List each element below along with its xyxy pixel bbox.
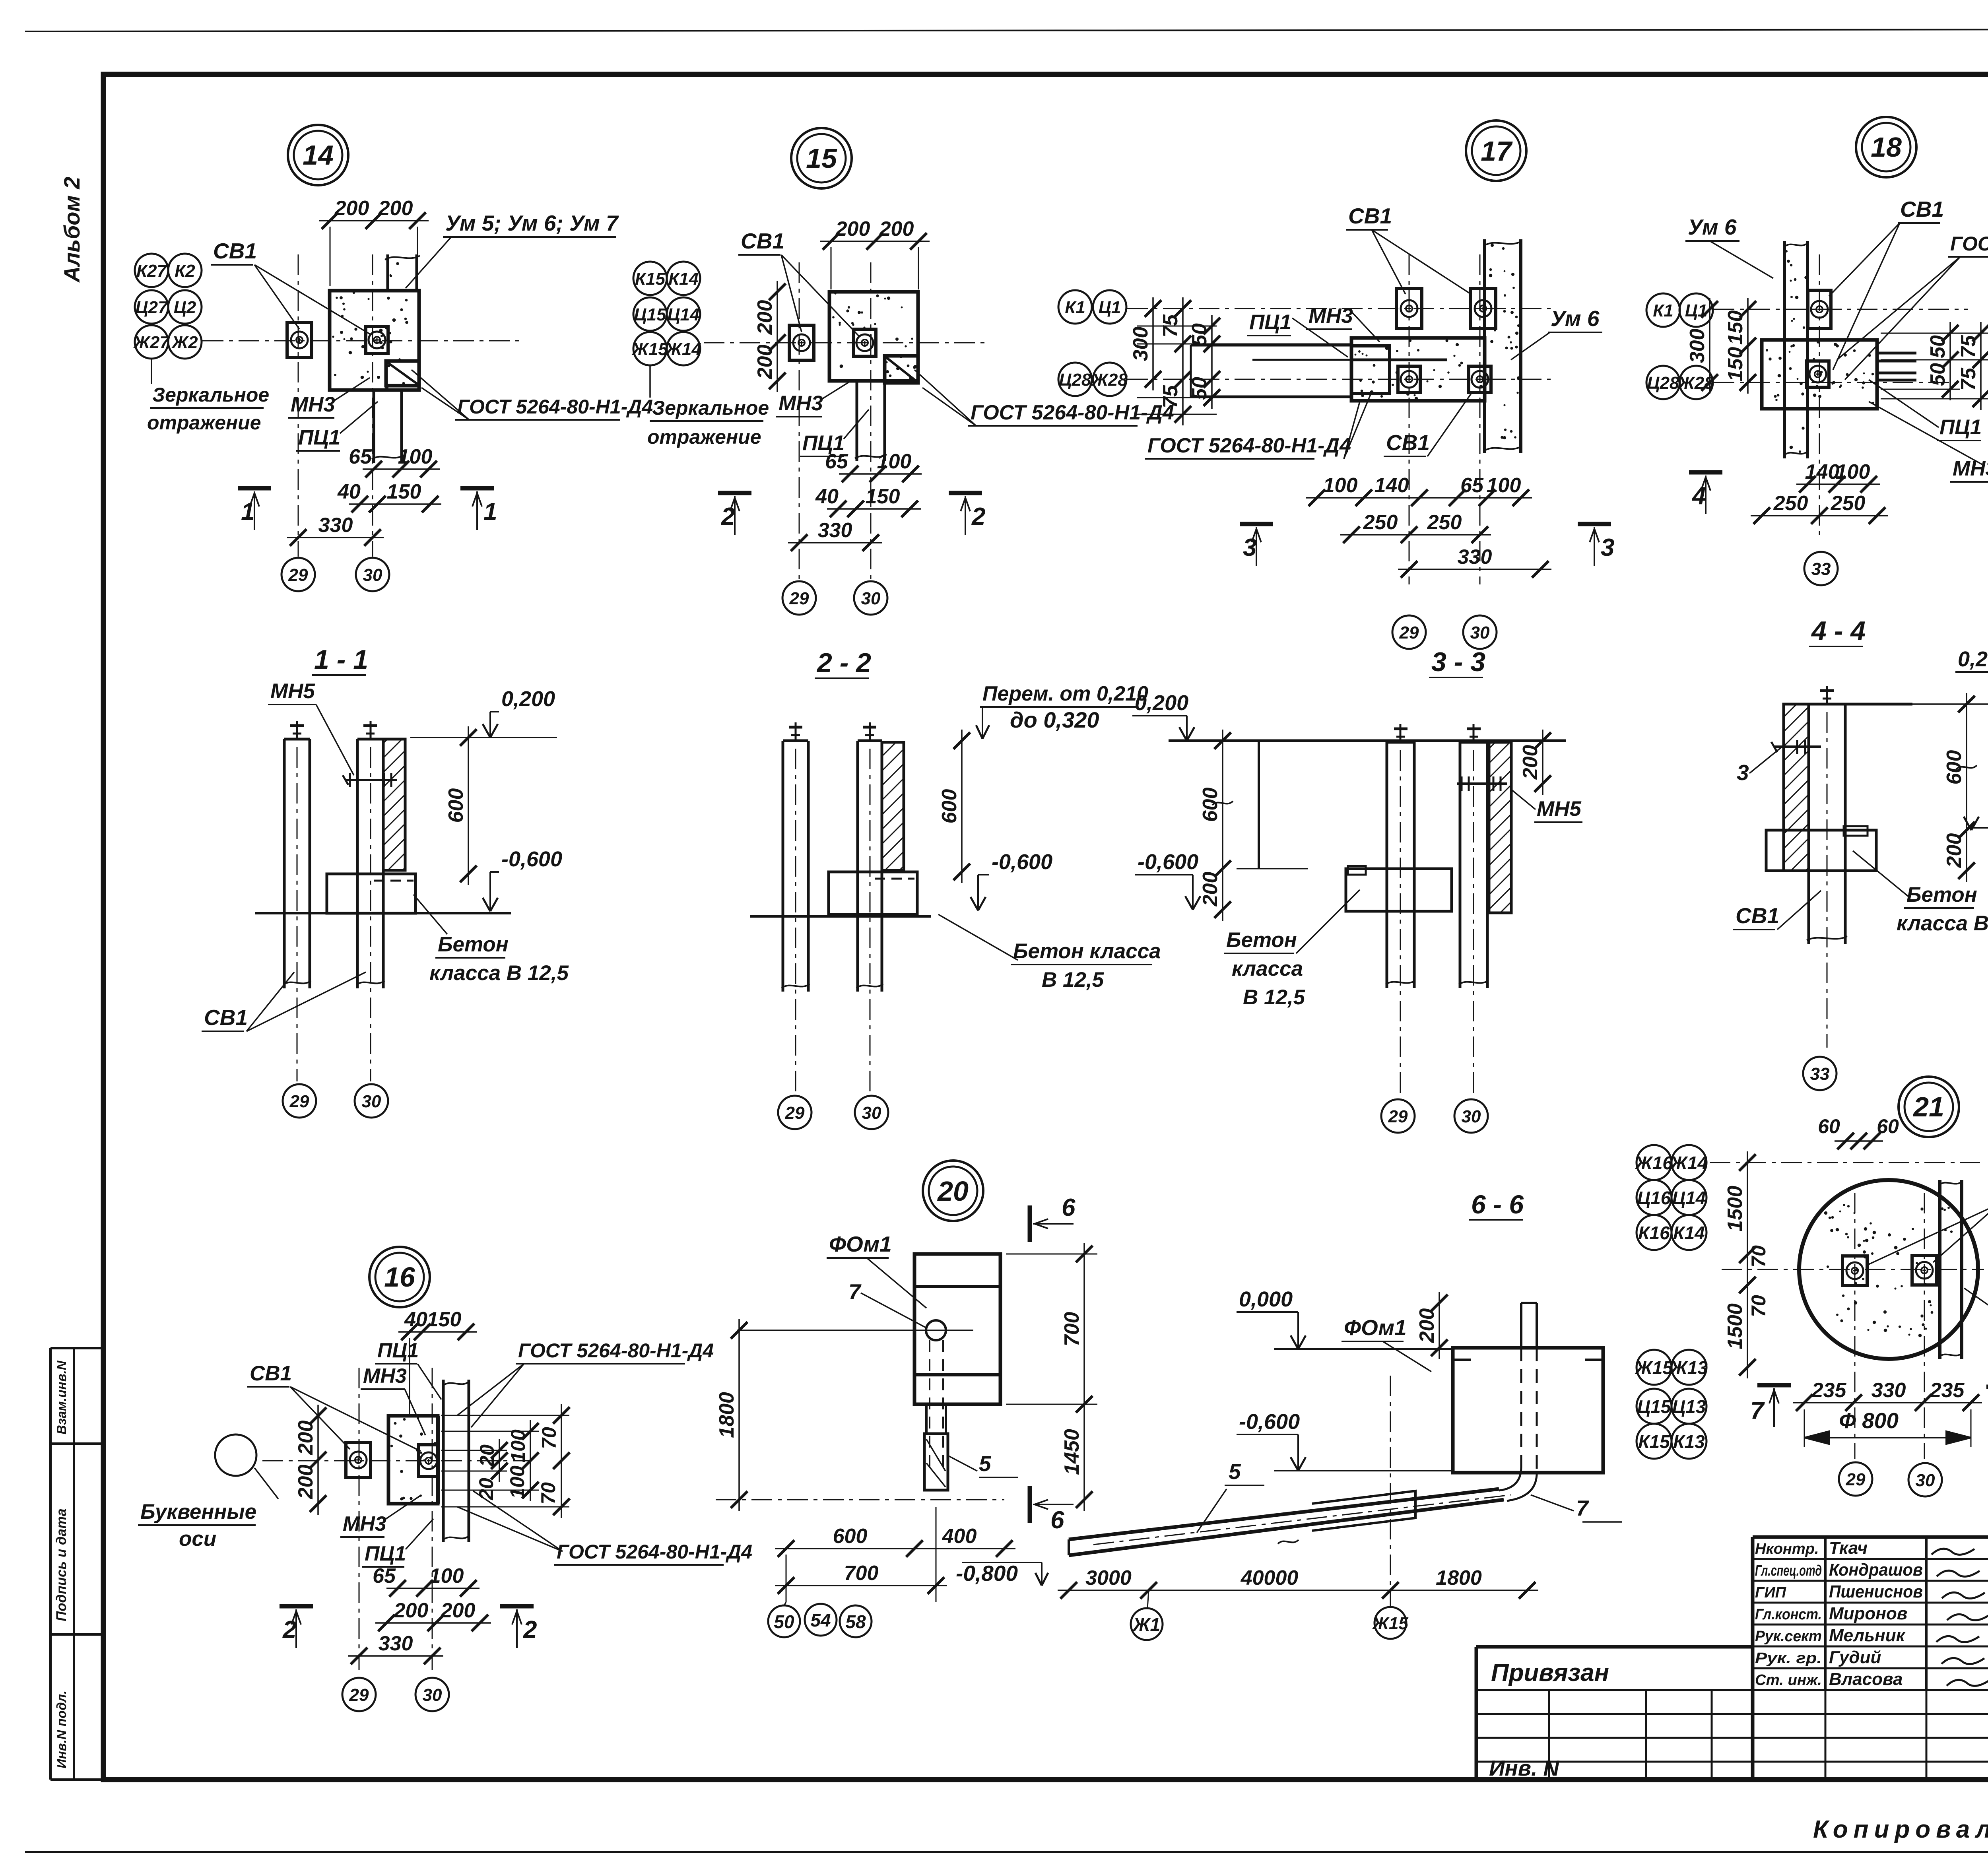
sheet edge bottom — [25, 1851, 1988, 1853]
svg-text:Гл.спец.отд: Гл.спец.отд — [1755, 1562, 1822, 1579]
svg-text:-0,600: -0,600 — [992, 850, 1052, 874]
node 16 right fan dims — [499, 1439, 500, 1482]
svg-text:МН3: МН3 — [779, 392, 823, 415]
section 4-4 dim 600 — [1966, 693, 1967, 841]
svg-text:Бетон: Бетон — [1226, 928, 1297, 952]
svg-text:Ц27: Ц27 — [135, 298, 169, 317]
section 1-1 foundation — [327, 874, 415, 913]
svg-text:100: 100 — [429, 1564, 464, 1588]
node 20 dim 600 400 — [775, 1548, 1015, 1549]
svg-text:4: 4 — [1691, 482, 1706, 510]
svg-text:ПЦ1: ПЦ1 — [1249, 311, 1291, 334]
svg-text:В 12,5: В 12,5 — [1042, 968, 1105, 992]
svg-text:1450: 1450 — [1060, 1429, 1083, 1475]
svg-text:МН5: МН5 — [270, 679, 315, 703]
svg-text:Бетон: Бетон — [438, 933, 509, 956]
svg-text:отражение: отражение — [147, 411, 261, 434]
node 16 left bolt — [346, 1442, 371, 1477]
svg-text:70: 70 — [1747, 1245, 1770, 1267]
svg-text:30: 30 — [362, 1092, 381, 1111]
svg-text:К1: К1 — [1653, 301, 1673, 320]
svg-text:Ум 5; Ум 6; Ум 7: Ум 5; Ум 6; Ум 7 — [445, 211, 619, 235]
svg-text:Ж16: Ж16 — [1635, 1153, 1673, 1173]
section 4-4 axis 33 — [1803, 1057, 1837, 1090]
svg-text:Привязан: Привязан — [1491, 1659, 1609, 1687]
svg-text:Инв.N подл.: Инв.N подл. — [54, 1691, 69, 1768]
svg-text:140: 140 — [1375, 474, 1409, 497]
svg-text:Зеркальное: Зеркальное — [152, 384, 269, 406]
node 21 bolt left — [1842, 1256, 1867, 1285]
svg-text:Зеркальное: Зеркальное — [652, 397, 769, 419]
svg-text:60: 60 — [1818, 1115, 1840, 1137]
svg-text:65: 65 — [373, 1564, 396, 1588]
svg-text:330: 330 — [379, 1632, 413, 1655]
svg-text:ПЦ1: ПЦ1 — [1939, 415, 1982, 439]
node 17 axis circles left pair 1 — [1058, 290, 1092, 324]
svg-text:ГОСТ 5264-80-Н1-Д4: ГОСТ 5264-80-Н1-Д4 — [518, 1339, 714, 1362]
svg-text:Буквенные: Буквенные — [140, 1500, 256, 1524]
node 20 axis circles 50 54 58 — [768, 1605, 800, 1637]
svg-text:Ц28: Ц28 — [1647, 373, 1679, 393]
node 14 axis 30 — [356, 558, 389, 591]
svg-text:Ж14: Ж14 — [665, 340, 701, 359]
svg-text:16: 16 — [384, 1262, 415, 1293]
svg-text:250: 250 — [1363, 511, 1398, 534]
svg-text:оси: оси — [179, 1527, 216, 1551]
svg-text:ПЦ1: ПЦ1 — [365, 1542, 406, 1565]
svg-text:МН5: МН5 — [1537, 797, 1582, 821]
svg-text:0,200: 0,200 — [1958, 647, 1988, 671]
node 20 section mark 6 top — [1028, 1205, 1032, 1242]
svg-text:Взам.инв.N: Взам.инв.N — [54, 1360, 69, 1434]
node 21 big circle — [1799, 1180, 1978, 1359]
svg-text:2: 2 — [721, 503, 735, 530]
node 16 generic axis circle — [215, 1434, 256, 1476]
svg-text:29: 29 — [1399, 623, 1419, 642]
node 20 pile element 5 — [924, 1434, 948, 1490]
section 6-6 axis Zh15 — [1375, 1607, 1406, 1639]
svg-text:330: 330 — [1872, 1379, 1906, 1402]
svg-text:0,200: 0,200 — [501, 687, 555, 711]
svg-text:-0,600: -0,600 — [501, 847, 562, 871]
svg-text:СВ1: СВ1 — [1348, 204, 1392, 228]
svg-text:Ц1: Ц1 — [1685, 301, 1708, 320]
section 3-3 wall hatched — [1489, 742, 1511, 913]
svg-text:330: 330 — [318, 514, 353, 537]
svg-text:75: 75 — [1957, 367, 1980, 391]
svg-text:200: 200 — [753, 300, 777, 335]
section 3-3 right pile — [1459, 742, 1462, 988]
svg-text:200: 200 — [753, 345, 777, 380]
svg-text:МН3: МН3 — [291, 393, 335, 416]
node 15 dim 200 200 — [820, 241, 930, 242]
svg-text:50: 50 — [774, 1611, 794, 1632]
svg-text:Ц16: Ц16 — [1637, 1188, 1671, 1208]
section 3-3 axis 30 — [1454, 1099, 1488, 1133]
svg-text:65: 65 — [825, 450, 848, 473]
svg-text:40000: 40000 — [1241, 1566, 1299, 1590]
node 20 dim 1800 — [738, 1319, 740, 1511]
section 2-2 dim 600 — [961, 730, 963, 883]
svg-text:ПЦ1: ПЦ1 — [298, 426, 340, 449]
svg-text:30: 30 — [1916, 1471, 1935, 1490]
node 21 dim 235 330 235 — [1793, 1402, 1982, 1403]
top band line — [103, 74, 1988, 74]
svg-text:330: 330 — [1458, 545, 1492, 569]
svg-text:СВ1: СВ1 — [1736, 903, 1779, 928]
svg-text:Ж13: Ж13 — [1670, 1357, 1708, 1378]
node 16 dim 65 100 — [386, 1588, 480, 1589]
section 1-1 axis 29 — [283, 1084, 316, 1118]
svg-text:0,200: 0,200 — [1135, 691, 1188, 715]
svg-text:Ц13: Ц13 — [1672, 1396, 1706, 1417]
node 14 mirror label — [151, 359, 152, 384]
section 3-3 level 0.200 — [1179, 727, 1187, 741]
svg-text:Ум 6: Ум 6 — [1551, 306, 1600, 331]
svg-text:Гл.конст.: Гл.конст. — [1755, 1606, 1822, 1623]
section 6-6 block — [1453, 1348, 1603, 1473]
svg-text:В 12,5: В 12,5 — [1243, 986, 1306, 1009]
svg-text:-0,800: -0,800 — [956, 1561, 1018, 1586]
node 16 marker — [369, 1247, 430, 1307]
svg-text:Нконтр.: Нконтр. — [1755, 1541, 1819, 1557]
svg-text:100: 100 — [1836, 460, 1870, 483]
section 2-2 left pile — [782, 741, 784, 992]
section 3-3 top slab line — [1169, 739, 1566, 742]
node 17 axis 30 — [1463, 615, 1497, 649]
node 16 concrete block — [388, 1416, 438, 1504]
node 20 big plate — [914, 1254, 1000, 1404]
svg-text:Гудий: Гудий — [1829, 1648, 1881, 1667]
svg-text:30: 30 — [862, 1103, 881, 1123]
svg-text:29: 29 — [289, 1092, 309, 1111]
node 16 steel column — [442, 1380, 445, 1542]
node 21 marker — [1899, 1077, 1959, 1137]
svg-text:29: 29 — [349, 1685, 369, 1705]
node 17 dims bottom row1 — [1306, 497, 1532, 499]
svg-text:Ц15: Ц15 — [1637, 1396, 1672, 1417]
section 6-6 level line top — [1274, 1348, 1453, 1350]
node 15 mirror label — [649, 365, 651, 398]
svg-text:100: 100 — [507, 1429, 529, 1463]
svg-text:29: 29 — [1388, 1107, 1408, 1126]
svg-text:6 - 6: 6 - 6 — [1471, 1190, 1524, 1219]
svg-text:70: 70 — [538, 1427, 560, 1449]
svg-text:235: 235 — [1930, 1379, 1965, 1402]
node 17 horizontal bar — [1351, 338, 1485, 401]
svg-text:2: 2 — [523, 1616, 537, 1644]
svg-text:700: 700 — [844, 1562, 879, 1585]
node 20 ref line — [737, 1330, 973, 1331]
node 17 section mark 3 left — [1240, 522, 1273, 526]
node 14 dim 40 150 — [349, 503, 441, 505]
svg-text:50: 50 — [1926, 363, 1949, 386]
section 2-2 axis 29 — [778, 1096, 812, 1129]
svg-text:30: 30 — [1462, 1107, 1481, 1126]
svg-text:Инв. N: Инв. N — [1489, 1756, 1560, 1780]
node 18 axis 33 — [1804, 552, 1838, 585]
section 1-1 dim 600 — [468, 726, 469, 885]
svg-text:МН3: МН3 — [343, 1512, 386, 1535]
svg-text:100: 100 — [1323, 474, 1358, 497]
svg-text:Ц15: Ц15 — [634, 305, 666, 324]
svg-text:Пшениснов: Пшениснов — [1829, 1582, 1923, 1601]
svg-text:29: 29 — [785, 1103, 805, 1123]
node 15 axis 30 — [854, 581, 887, 615]
svg-text:200: 200 — [394, 1599, 429, 1622]
node 14 marker — [288, 125, 348, 185]
svg-text:Ткач: Ткач — [1829, 1538, 1868, 1558]
section 4-4 dim 200 — [1966, 819, 1967, 882]
node 18 dims bottom row1 — [1796, 483, 1880, 485]
section 3-3 bolt mn5 — [1457, 782, 1507, 785]
svg-text:150: 150 — [1724, 347, 1747, 382]
node 17 dims left — [1152, 297, 1154, 390]
section 1-1 axis 30 — [355, 1084, 388, 1118]
svg-text:1800: 1800 — [1436, 1566, 1482, 1590]
svg-text:Ц14: Ц14 — [667, 305, 699, 324]
svg-text:ГОСТ5264-80-Н1-Д4: ГОСТ5264-80-Н1-Д4 — [1950, 233, 1988, 255]
title block outer — [1753, 1535, 1988, 1539]
svg-text:МН3: МН3 — [363, 1364, 407, 1388]
section 6-6 level 0.000 — [1291, 1335, 1298, 1349]
svg-text:3: 3 — [1243, 534, 1256, 561]
stamp column boxes — [49, 1348, 52, 1780]
node 15 section mark 2 left — [718, 491, 751, 495]
section 2-2 right pile — [856, 741, 859, 992]
svg-text:Ц2: Ц2 — [174, 298, 196, 317]
section 3-3 bottom line — [1346, 910, 1452, 912]
svg-text:33: 33 — [1810, 1064, 1830, 1084]
node 18 marker — [1856, 117, 1916, 177]
svg-text:75: 75 — [1957, 335, 1980, 358]
svg-text:200: 200 — [1199, 872, 1222, 907]
svg-text:7: 7 — [848, 1279, 862, 1304]
svg-text:100: 100 — [398, 445, 433, 468]
node 21 dim diameter 800 — [1804, 1437, 1971, 1438]
svg-text:100: 100 — [877, 450, 912, 473]
svg-text:100: 100 — [1487, 474, 1521, 497]
section 2-2 wall hatched — [882, 742, 904, 870]
node 15 axis circle group — [633, 262, 667, 295]
node 17 dims bottom row2 — [1340, 534, 1491, 536]
svg-text:К27: К27 — [136, 261, 168, 281]
section 6-6 inclined member — [1069, 1489, 1499, 1539]
node 18 axis centerlines — [1714, 309, 1968, 310]
svg-text:Ж15: Ж15 — [631, 340, 668, 359]
node 15 marker — [791, 128, 852, 188]
section 2-2 level -0.600 — [971, 897, 978, 910]
svg-text:ГОСТ 5264-80-Н1-Д4: ГОСТ 5264-80-Н1-Д4 — [457, 396, 653, 418]
svg-text:5: 5 — [979, 1451, 992, 1476]
svg-text:58: 58 — [845, 1611, 866, 1632]
svg-text:15: 15 — [806, 143, 837, 174]
svg-text:Ж27: Ж27 — [133, 333, 170, 352]
node 17 dim 330 — [1398, 569, 1551, 570]
node 14 left bolt — [287, 322, 312, 357]
svg-text:30: 30 — [861, 589, 881, 608]
svg-text:6: 6 — [1050, 1506, 1064, 1534]
section 3-3 axis 29 — [1381, 1099, 1415, 1133]
svg-text:Ц1: Ц1 — [1099, 298, 1121, 317]
node 15 dim 65 100 — [839, 473, 922, 475]
svg-text:К15: К15 — [1638, 1431, 1670, 1452]
node 16 dim 330 — [348, 1655, 443, 1657]
svg-text:65: 65 — [349, 445, 372, 468]
node 21 centerline horizontal top — [1710, 1162, 1980, 1163]
node 15 lower panel — [856, 381, 858, 461]
svg-text:К16: К16 — [1638, 1223, 1670, 1243]
node 14 axis centerlines — [298, 254, 299, 557]
node 15 concrete block — [829, 292, 918, 381]
section 6-6 axis Zh1 — [1131, 1608, 1163, 1640]
svg-text:1500: 1500 — [1724, 1186, 1747, 1232]
node 20 hole and rod — [926, 1320, 946, 1340]
node 15 left bolt — [789, 325, 814, 360]
svg-text:20: 20 — [475, 1478, 497, 1500]
section 1-1 bolt mn5 — [346, 779, 397, 781]
section 4-4 pile — [1807, 704, 1810, 944]
section 4-4 wall hatched — [1784, 704, 1809, 871]
svg-text:20: 20 — [476, 1444, 498, 1467]
svg-text:Альбом 2: Альбом 2 — [59, 177, 84, 283]
svg-text:Рук. гр.: Рук. гр. — [1755, 1650, 1822, 1667]
svg-text:К14: К14 — [668, 269, 699, 289]
svg-text:1 - 1: 1 - 1 — [314, 644, 368, 675]
svg-text:7: 7 — [1576, 1496, 1589, 1520]
svg-text:ПЦ1: ПЦ1 — [377, 1339, 419, 1362]
section 3-3 level -0.600 — [1185, 896, 1193, 910]
svg-text:Ж14: Ж14 — [1670, 1153, 1708, 1173]
node 16 dim 200 200 bottom — [375, 1622, 491, 1624]
section 3-3 dim 600 200 — [1222, 730, 1223, 921]
svg-text:2: 2 — [282, 1616, 296, 1644]
svg-text:50: 50 — [1926, 335, 1949, 358]
node 15 dim 330 — [788, 542, 882, 543]
node 18 horizontal bar — [1762, 340, 1877, 409]
node 21 axis circle group lower — [1637, 1350, 1672, 1385]
svg-text:700: 700 — [1060, 1312, 1083, 1347]
node 15 section mark 2 right — [949, 491, 982, 495]
node 15 axis 29 — [782, 581, 816, 615]
svg-text:200: 200 — [441, 1599, 476, 1622]
node 17 axis centerlines — [1127, 308, 1551, 309]
svg-text:14: 14 — [303, 140, 334, 171]
svg-text:МН3: МН3 — [1953, 457, 1988, 480]
section 6-6 bottom dims — [1058, 1590, 1538, 1591]
section 4-4 bolt — [1774, 745, 1821, 748]
node 17 marker — [1466, 120, 1526, 181]
svg-text:20: 20 — [937, 1176, 969, 1207]
svg-text:150: 150 — [1724, 311, 1747, 345]
node 21 axis 30 — [1908, 1463, 1942, 1496]
svg-text:Ж15: Ж15 — [1635, 1357, 1673, 1378]
svg-text:29: 29 — [288, 565, 308, 585]
svg-text:Ж2: Ж2 — [171, 333, 198, 352]
node 17 bar bolt 1 — [1398, 366, 1420, 392]
node 16 section mark 2 right — [500, 1604, 534, 1609]
section 6-6 level line bottom — [1274, 1470, 1453, 1471]
section 4-4 concrete label — [1853, 851, 1908, 897]
svg-text:Кондрашов: Кондрашов — [1829, 1560, 1923, 1580]
node 16 letter axes label — [254, 1468, 278, 1499]
sheet edge top — [25, 29, 1988, 31]
section 4-4 level -0.600 — [1964, 817, 1971, 830]
svg-text:СВ1: СВ1 — [250, 1362, 292, 1385]
svg-text:отражение: отражение — [647, 426, 761, 448]
svg-text:3000: 3000 — [1085, 1566, 1132, 1590]
svg-text:Мельник: Мельник — [1829, 1626, 1906, 1645]
section 3-3 foundation — [1346, 869, 1452, 911]
svg-text:ФОм1: ФОм1 — [829, 1232, 892, 1256]
svg-text:Ж15: Ж15 — [1372, 1614, 1408, 1633]
node 20 dim 700 1450 — [1083, 1243, 1085, 1511]
node 16 weld strips — [436, 1416, 440, 1504]
node 14 dim 200 200 — [319, 220, 429, 221]
svg-text:Перем. от 0,210: Перем. от 0,210 — [982, 682, 1148, 705]
pривязан table — [1476, 1645, 1754, 1649]
svg-text:ФОм1: ФОм1 — [1344, 1315, 1407, 1340]
svg-text:1500: 1500 — [1724, 1303, 1747, 1349]
svg-text:4 - 4: 4 - 4 — [1811, 616, 1866, 646]
svg-text:класса В 12,5: класса В 12,5 — [429, 961, 569, 985]
svg-text:Ц28: Ц28 — [1059, 370, 1091, 390]
node 21 axis 29 — [1839, 1462, 1872, 1496]
svg-text:класса В 12,5: класса В 12,5 — [1897, 912, 1988, 935]
node 14 corner plate — [386, 361, 419, 386]
node 18 wall panel vertical — [1783, 241, 1786, 458]
svg-text:-0,600: -0,600 — [1239, 1410, 1300, 1434]
svg-text:200: 200 — [879, 217, 914, 241]
svg-text:К15: К15 — [635, 269, 666, 289]
node 17 section mark 3 right — [1578, 522, 1611, 526]
svg-text:65: 65 — [1460, 474, 1484, 497]
svg-text:30: 30 — [423, 1685, 442, 1705]
node 21 bolt right — [1912, 1256, 1937, 1285]
node 21 section mark 7 left — [1757, 1383, 1791, 1388]
node 18 dims bottom row2 — [1751, 515, 1888, 516]
node 18 dims left — [1709, 298, 1710, 394]
section 1-1 level 0.200 — [483, 724, 490, 738]
svg-text:200: 200 — [1943, 833, 1966, 868]
svg-text:33: 33 — [1811, 559, 1831, 579]
svg-text:150: 150 — [866, 485, 900, 508]
svg-text:54: 54 — [810, 1610, 831, 1630]
node 16 axis centerlines — [359, 1368, 360, 1670]
svg-text:1800: 1800 — [715, 1392, 738, 1438]
node 18 top bolt — [1808, 290, 1831, 328]
node 17 left plate stack — [1351, 346, 1390, 394]
node 20 lower neck — [925, 1404, 928, 1434]
svg-text:100: 100 — [506, 1465, 528, 1499]
svg-text:Подпись и дата: Подпись и дата — [54, 1508, 69, 1621]
svg-text:29: 29 — [789, 589, 809, 608]
svg-text:200: 200 — [378, 197, 413, 220]
node 16 dims 200 200 left — [317, 1405, 319, 1515]
svg-text:600: 600 — [833, 1525, 868, 1548]
node 14 concrete block — [330, 291, 419, 390]
svg-text:3: 3 — [1601, 534, 1614, 561]
svg-text:30: 30 — [1470, 623, 1490, 642]
svg-text:ГОСТ 5264-80-Н1-Д4: ГОСТ 5264-80-Н1-Д4 — [971, 401, 1174, 424]
svg-text:Ж28: Ж28 — [1091, 370, 1128, 390]
svg-text:70: 70 — [537, 1482, 559, 1504]
svg-text:СВ1: СВ1 — [204, 1005, 248, 1030]
section 6-6 dim 200 — [1439, 1292, 1440, 1359]
svg-text:до 0,320: до 0,320 — [1010, 707, 1099, 732]
svg-text:40: 40 — [404, 1308, 427, 1331]
svg-text:600: 600 — [445, 788, 468, 823]
